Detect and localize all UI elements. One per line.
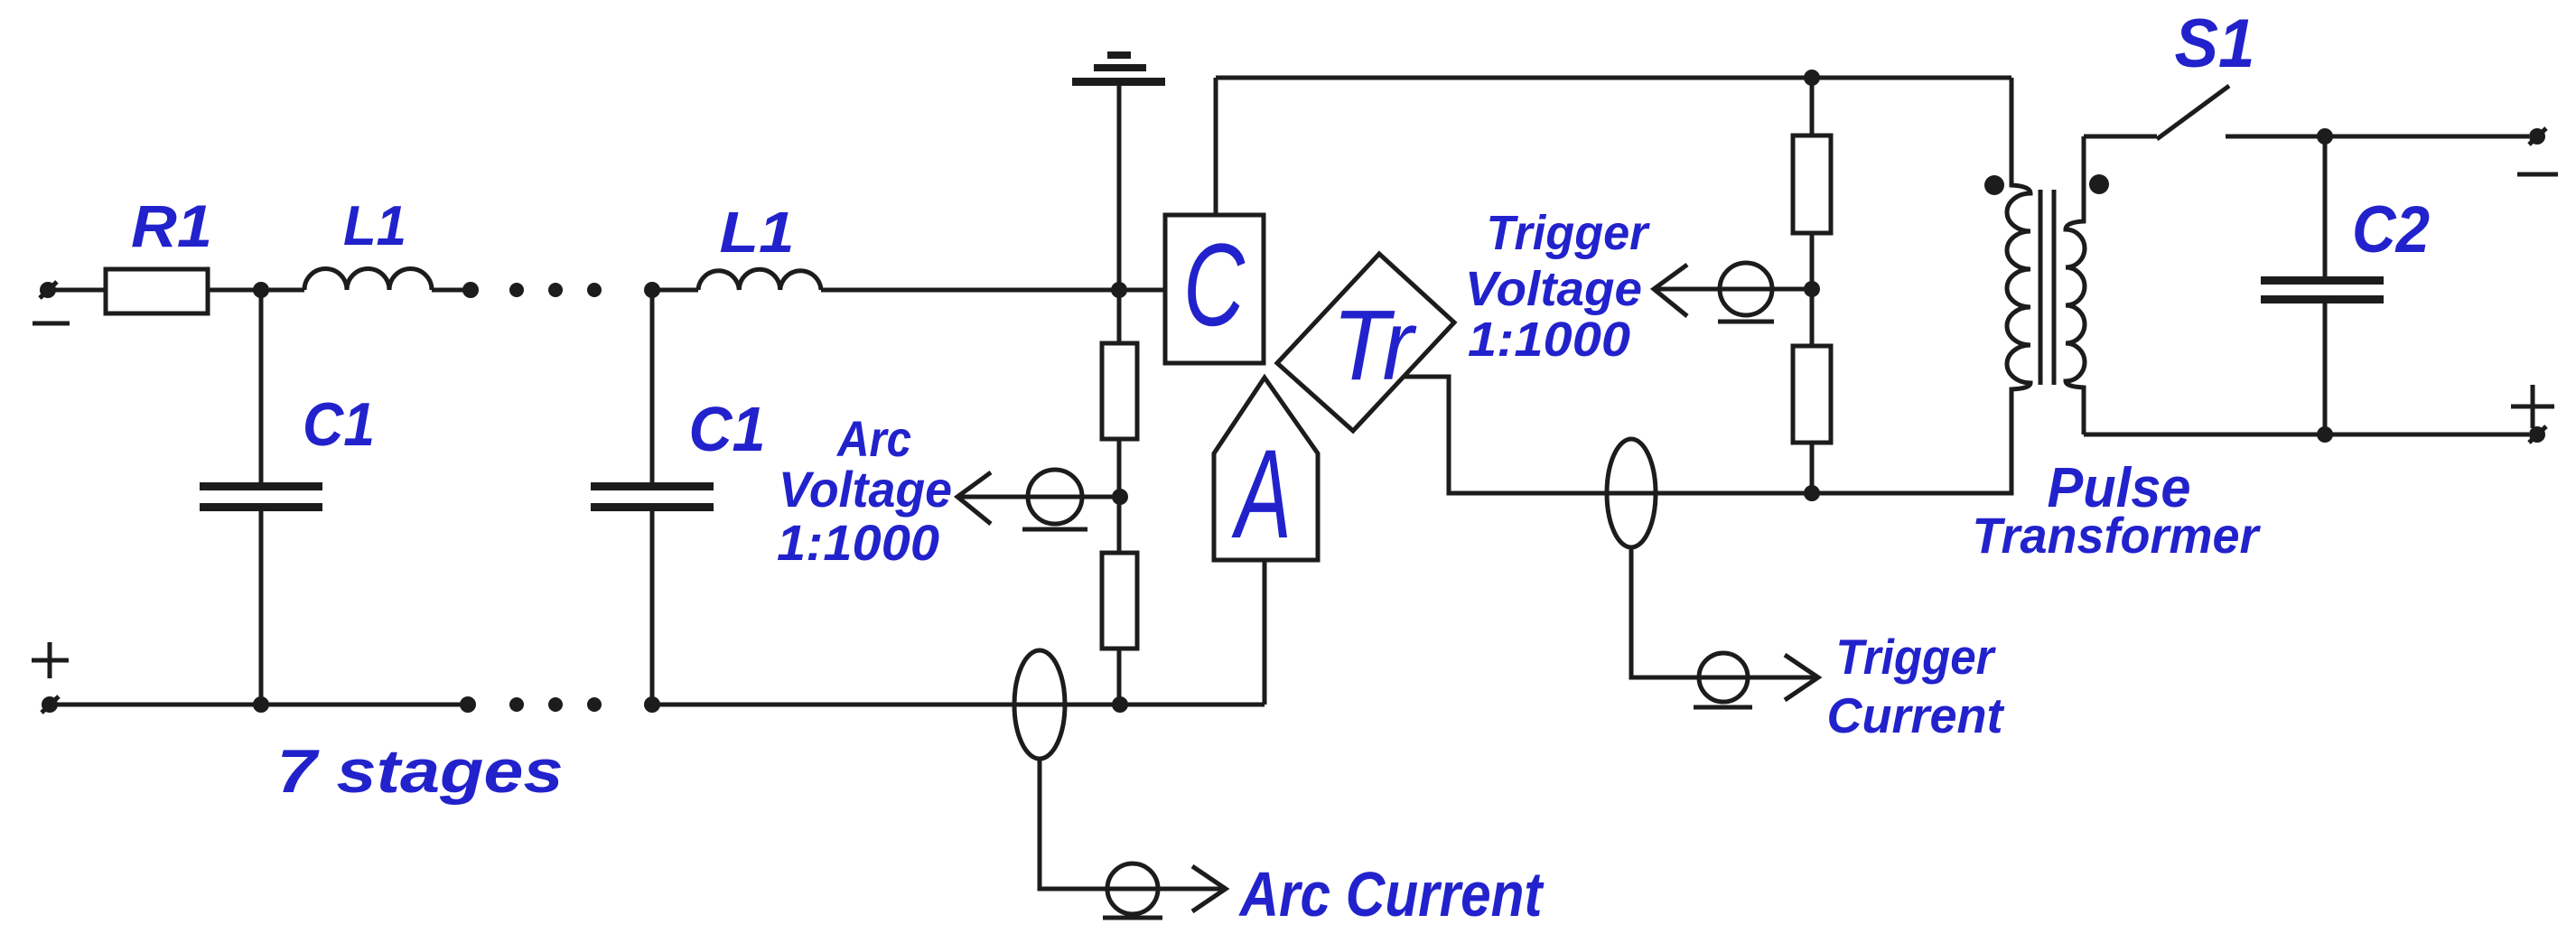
svg-text:C: C xyxy=(1183,219,1246,350)
CT ellipse (trigger current) xyxy=(1607,439,1656,547)
inductor L1 (last stage) xyxy=(698,269,821,290)
terminal: output bottom xyxy=(2529,426,2546,443)
svg-text:S1: S1 xyxy=(2175,5,2255,82)
terminal: output top xyxy=(2529,128,2546,145)
transformer core xyxy=(2040,190,2054,385)
resistor R1 xyxy=(106,269,208,313)
svg-text:Arc Current: Arc Current xyxy=(1238,859,1545,929)
svg-text:Voltage: Voltage xyxy=(1465,262,1642,316)
minus polarity label (input) xyxy=(33,322,70,326)
wire bottom bus left xyxy=(50,703,468,707)
wire xyxy=(1117,649,1122,705)
probe circle (arc current) xyxy=(1103,864,1162,918)
svg-text:R1: R1 xyxy=(131,192,212,259)
wire top output xyxy=(2325,135,2529,139)
node: stage break (top) xyxy=(462,282,479,298)
transformer secondary winding xyxy=(2066,136,2085,434)
svg-text:C1: C1 xyxy=(689,394,766,464)
svg-text:Trigger: Trigger xyxy=(1836,629,1996,685)
svg-text:Voltage: Voltage xyxy=(779,461,952,518)
capacitor C2 xyxy=(2261,136,2384,434)
svg-text:1:1000: 1:1000 xyxy=(777,514,939,571)
svg-text:7 stages: 7 stages xyxy=(277,737,564,806)
wire to arc current probe xyxy=(1040,759,1224,889)
polarity dot (secondary) xyxy=(2089,174,2109,194)
wire xyxy=(1117,439,1122,553)
node divider mid (trigger) xyxy=(1804,281,1820,297)
svg-text:L1: L1 xyxy=(720,200,795,265)
wire anode to bottom bus xyxy=(1263,560,1267,705)
label Trigger Current xyxy=(1827,629,2006,743)
resistor divider upper (arc voltage) xyxy=(1102,343,1137,439)
svg-text:A: A xyxy=(1231,423,1292,565)
transformer primary winding xyxy=(2007,78,2030,493)
wire ground stem xyxy=(1117,86,1122,343)
node: trigger bus junction xyxy=(1804,485,1820,501)
wire xyxy=(1810,443,1815,493)
ellipsis dots (bottom bus) xyxy=(509,697,602,712)
ellipsis dots (top bus) xyxy=(509,283,602,297)
svg-text:Tr: Tr xyxy=(1332,290,1417,401)
plus polarity label (input) xyxy=(32,642,69,678)
capacitor C1 (first stage) xyxy=(200,290,322,705)
terminal: negative input xyxy=(40,282,57,298)
wire xyxy=(652,288,698,293)
wire xyxy=(821,288,1165,293)
arrow (arc current) xyxy=(1192,866,1226,911)
CT ellipse (arc current) xyxy=(1014,650,1065,759)
wire xyxy=(1810,233,1815,346)
node: stage break (bottom) xyxy=(460,696,476,713)
svg-text:Trigger: Trigger xyxy=(1487,206,1651,260)
node B1 xyxy=(644,282,660,298)
svg-text:L1: L1 xyxy=(343,195,406,257)
node divider mid xyxy=(1112,489,1128,505)
node C2 bottom xyxy=(2317,426,2333,443)
svg-text:1:1000: 1:1000 xyxy=(1468,313,1630,367)
probe circle (arc voltage) xyxy=(1022,470,1087,529)
label Pulse Transformer xyxy=(1973,457,2262,564)
wire xyxy=(48,288,106,293)
node: C1 bottom junction xyxy=(253,696,269,713)
minus polarity label (output) xyxy=(2517,173,2558,177)
measurement line + arrow (trigger voltage) xyxy=(1654,265,1812,316)
node: top bus / divider junction xyxy=(1804,70,1820,86)
node B2 xyxy=(644,696,660,713)
wire to trigger current probe xyxy=(1631,547,1816,677)
capacitor C1 (last stage) xyxy=(591,290,714,705)
wire secondary bottom / bottom output xyxy=(2084,433,2529,437)
trigger electrode Tr xyxy=(1277,254,1454,431)
plus polarity label (output) xyxy=(2511,385,2554,428)
wire top bus to divider xyxy=(1810,78,1815,135)
resistor divider lower (trigger voltage) xyxy=(1793,346,1831,443)
node: divider bottom junction xyxy=(1112,696,1128,713)
probe circle (trigger current) xyxy=(1694,653,1752,707)
svg-text:Transformer: Transformer xyxy=(1973,507,2262,564)
resistor divider lower (arc voltage) xyxy=(1102,553,1137,649)
svg-text:C1: C1 xyxy=(303,390,375,459)
node C2 top xyxy=(2317,128,2333,145)
probe circle (trigger voltage) xyxy=(1718,263,1774,322)
resistor divider upper (trigger voltage) xyxy=(1793,135,1831,233)
arrow (trigger current) xyxy=(1785,655,1818,700)
ground xyxy=(1072,51,1165,86)
label Arc Voltage 1:1000 xyxy=(777,410,952,571)
inductor L1 (first stage) xyxy=(304,269,432,291)
wire xyxy=(432,288,471,293)
wire secondary top to switch xyxy=(2084,135,2157,139)
cathode box C xyxy=(1165,215,1264,363)
svg-text:C2: C2 xyxy=(2352,193,2430,266)
wire xyxy=(208,288,304,293)
node A1 xyxy=(253,282,269,298)
node main/divider junction xyxy=(1111,282,1127,298)
wire cathode to top bus xyxy=(1214,78,1218,215)
polarity dot (primary) xyxy=(1984,175,2004,195)
wire bottom bus right xyxy=(652,703,1265,707)
measurement line + arrow (arc voltage) xyxy=(957,472,1119,524)
svg-text:Arc: Arc xyxy=(835,410,911,467)
label Trigger Voltage 1:1000 xyxy=(1465,206,1650,367)
terminal: positive input xyxy=(42,696,59,713)
svg-text:Current: Current xyxy=(1827,687,2006,743)
switch S1 xyxy=(2157,86,2325,139)
anode A electrode xyxy=(1214,378,1318,560)
wire top bus xyxy=(1216,76,2011,80)
wire trigger output xyxy=(1404,377,2011,493)
